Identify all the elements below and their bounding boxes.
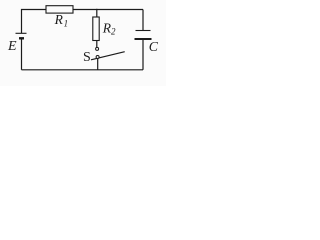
wire left (battery to bottom-left corner) [21,39,23,70]
wire (switch bottom contact to bottom wire) [97,59,99,70]
svg-text:E: E [7,39,17,54]
capacitor C top plate [136,30,151,32]
resistor R1 [46,6,73,13]
switch S blade [91,52,125,60]
wire bottom [22,69,144,71]
switch S bottom contact [96,56,99,59]
capacitor C bottom plate [135,38,152,40]
wire right (top-right corner down to capacitor) [142,10,144,31]
svg-text:C: C [149,39,159,54]
battery E long plate [16,32,27,34]
wire (junction node to R2) [96,9,98,17]
resistor R2 [93,17,99,41]
wire (R2 to switch top contact) [96,41,98,48]
switch S top contact [96,47,99,50]
wire top (left segment, battery top to R1) [22,10,47,34]
wire right (capacitor to bottom-right corner) [142,40,144,70]
svg-text:S: S [83,50,91,65]
battery E short plate [19,37,24,39]
wire top (R1 to top-right corner) [73,9,143,11]
